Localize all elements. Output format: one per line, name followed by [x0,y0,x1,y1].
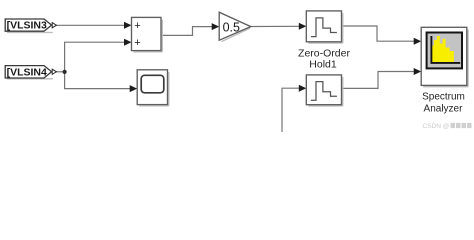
watermark CSDN [423,123,472,130]
arrowhead into spectrum analyzer in2 [414,68,422,75]
wire junction down to scope [65,72,132,89]
wire sum out to gain [161,27,214,36]
wire zero-order hold2 to spectrum analyzer in2 [342,72,416,89]
wire VLSIN3 to sum in1 [56,24,126,26]
zero-order hold1 block [306,11,341,42]
svg-text:+: + [134,20,140,32]
svg-text:Spectrum: Spectrum [422,92,465,103]
scope block [137,70,167,105]
from tag VLSIN4 [5,66,56,79]
wire junction up to sum in2 [65,42,126,72]
svg-text:CSDN @: CSDN @ [423,123,450,130]
label Spectrum Analyzer [422,92,465,115]
svg-text:Hold1: Hold1 [309,59,337,71]
svg-text:0.5: 0.5 [223,20,240,34]
arrowhead into zero-order hold1 [299,23,307,30]
gain block 0.5 [219,12,251,40]
arrowhead into sum in2 [124,39,132,46]
label Zero-Order Hold1 [298,48,350,71]
node junction on VLSIN4 net [63,70,67,74]
svg-text:[VLSIN3: [VLSIN3 [7,20,47,32]
spectrum analyzer block [421,27,467,85]
svg-text:Analyzer: Analyzer [424,104,464,115]
block shadows [7,13,468,106]
arrowhead into scope [130,85,138,92]
sum block [132,17,162,50]
svg-text:+: + [134,37,140,49]
spectrum icon axis [431,36,460,63]
spectrum icon yellow trace [432,36,454,63]
from tag VLSIN3 [5,19,56,32]
wire gain to zero-order hold1 [251,25,301,27]
arrowhead into sum in1 [124,22,132,29]
arrowhead into gain [212,23,220,30]
arrowhead into zero-order hold2 [299,85,307,92]
arrowhead into spectrum analyzer in1 [414,38,422,45]
wire VLSIN4 to junction [56,71,65,73]
wire from below to zero-order hold2 [282,88,301,132]
wire zero-order hold1 to spectrum analyzer in1 [342,26,416,41]
svg-text:[VLSIN4: [VLSIN4 [7,66,47,78]
zero-order hold2 block [306,75,341,105]
